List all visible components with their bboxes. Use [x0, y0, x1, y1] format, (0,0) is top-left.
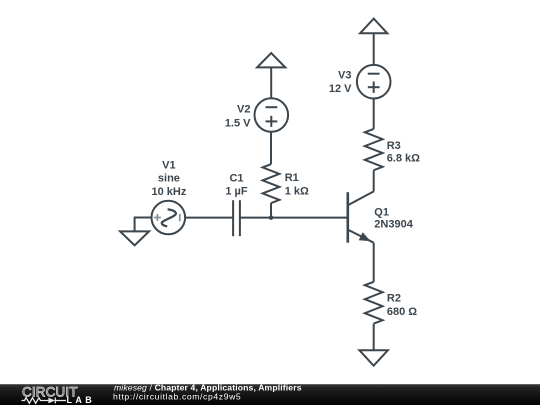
svg-text:LAB: LAB — [67, 395, 96, 405]
logo resistor+diode glyph — [22, 398, 67, 404]
V3 minus sign — [368, 73, 380, 75]
svg-text:C1: C1 — [229, 173, 243, 185]
wire Q1 emitter to R2 top — [373, 243, 375, 282]
svg-text:V1: V1 — [162, 160, 175, 172]
voltage source V1 body (sine) — [152, 201, 186, 235]
wire V1 right to C1 left plate — [185, 217, 233, 219]
ground symbol (V1) — [120, 231, 149, 245]
svg-text:680 Ω: 680 Ω — [387, 306, 417, 318]
svg-text:1.5 V: 1.5 V — [225, 118, 251, 130]
wire R2 bottom to ground — [373, 324, 375, 351]
svg-text:12 V: 12 V — [329, 83, 352, 95]
V2 minus sign — [266, 106, 278, 108]
wire V3 bottom to R3 top — [373, 99, 375, 129]
ground symbol (emitter leg) — [359, 350, 388, 366]
resistor R1 zigzag — [263, 164, 280, 203]
voltage source V3 body — [357, 65, 391, 99]
capacitor C1 left plate — [232, 200, 234, 236]
wire V2 bottom to R1 top — [270, 132, 272, 164]
power flag P2 (top right, +V supply) — [360, 19, 387, 34]
svg-text:sine: sine — [158, 172, 180, 184]
svg-text:http://circuitlab.com/cp4z9w5: http://circuitlab.com/cp4z9w5 — [113, 392, 241, 402]
svg-text:10 kHz: 10 kHz — [151, 186, 186, 198]
wire P1 to V2 top — [270, 67, 272, 98]
svg-text:6.8 kΩ: 6.8 kΩ — [387, 152, 420, 164]
wire V1 left to ground drop — [135, 218, 152, 232]
svg-text:R1: R1 — [285, 172, 299, 184]
transistor Q1 base bar — [346, 192, 349, 243]
svg-text:Q1: Q1 — [374, 206, 389, 218]
V3 plus sign — [368, 86, 380, 88]
svg-text:V3: V3 — [338, 70, 351, 82]
wire P2 to V3 top — [373, 33, 375, 65]
junction node dot — [269, 215, 274, 220]
V1 minus mark (gray) — [179, 214, 181, 221]
Q1 collector diagonal — [348, 191, 373, 205]
Q1 emitter diagonal — [348, 230, 373, 243]
svg-text:R3: R3 — [387, 140, 401, 152]
V1 sine squiggle — [162, 209, 176, 226]
Q1 emitter arrow — [359, 232, 371, 241]
wire C1 to node to Q1 base — [240, 217, 348, 219]
resistor R2 zigzag — [365, 282, 383, 324]
svg-text:1 kΩ: 1 kΩ — [285, 186, 309, 198]
power flag P1 (above V2) — [257, 53, 285, 67]
svg-text:2N3904: 2N3904 — [374, 219, 413, 231]
svg-text:R2: R2 — [387, 293, 401, 305]
capacitor C1 right plate — [239, 200, 241, 236]
wire R1 bottom to node — [270, 203, 272, 218]
V1 plus mark (gray) — [154, 214, 180, 221]
wire R3 bottom to Q1 collector — [373, 170, 375, 191]
svg-text:V2: V2 — [237, 103, 250, 115]
svg-text:1 µF: 1 µF — [225, 185, 248, 197]
voltage source V2 body — [254, 98, 288, 132]
V2 plus sign — [266, 120, 278, 122]
resistor R3 zigzag — [365, 129, 383, 170]
